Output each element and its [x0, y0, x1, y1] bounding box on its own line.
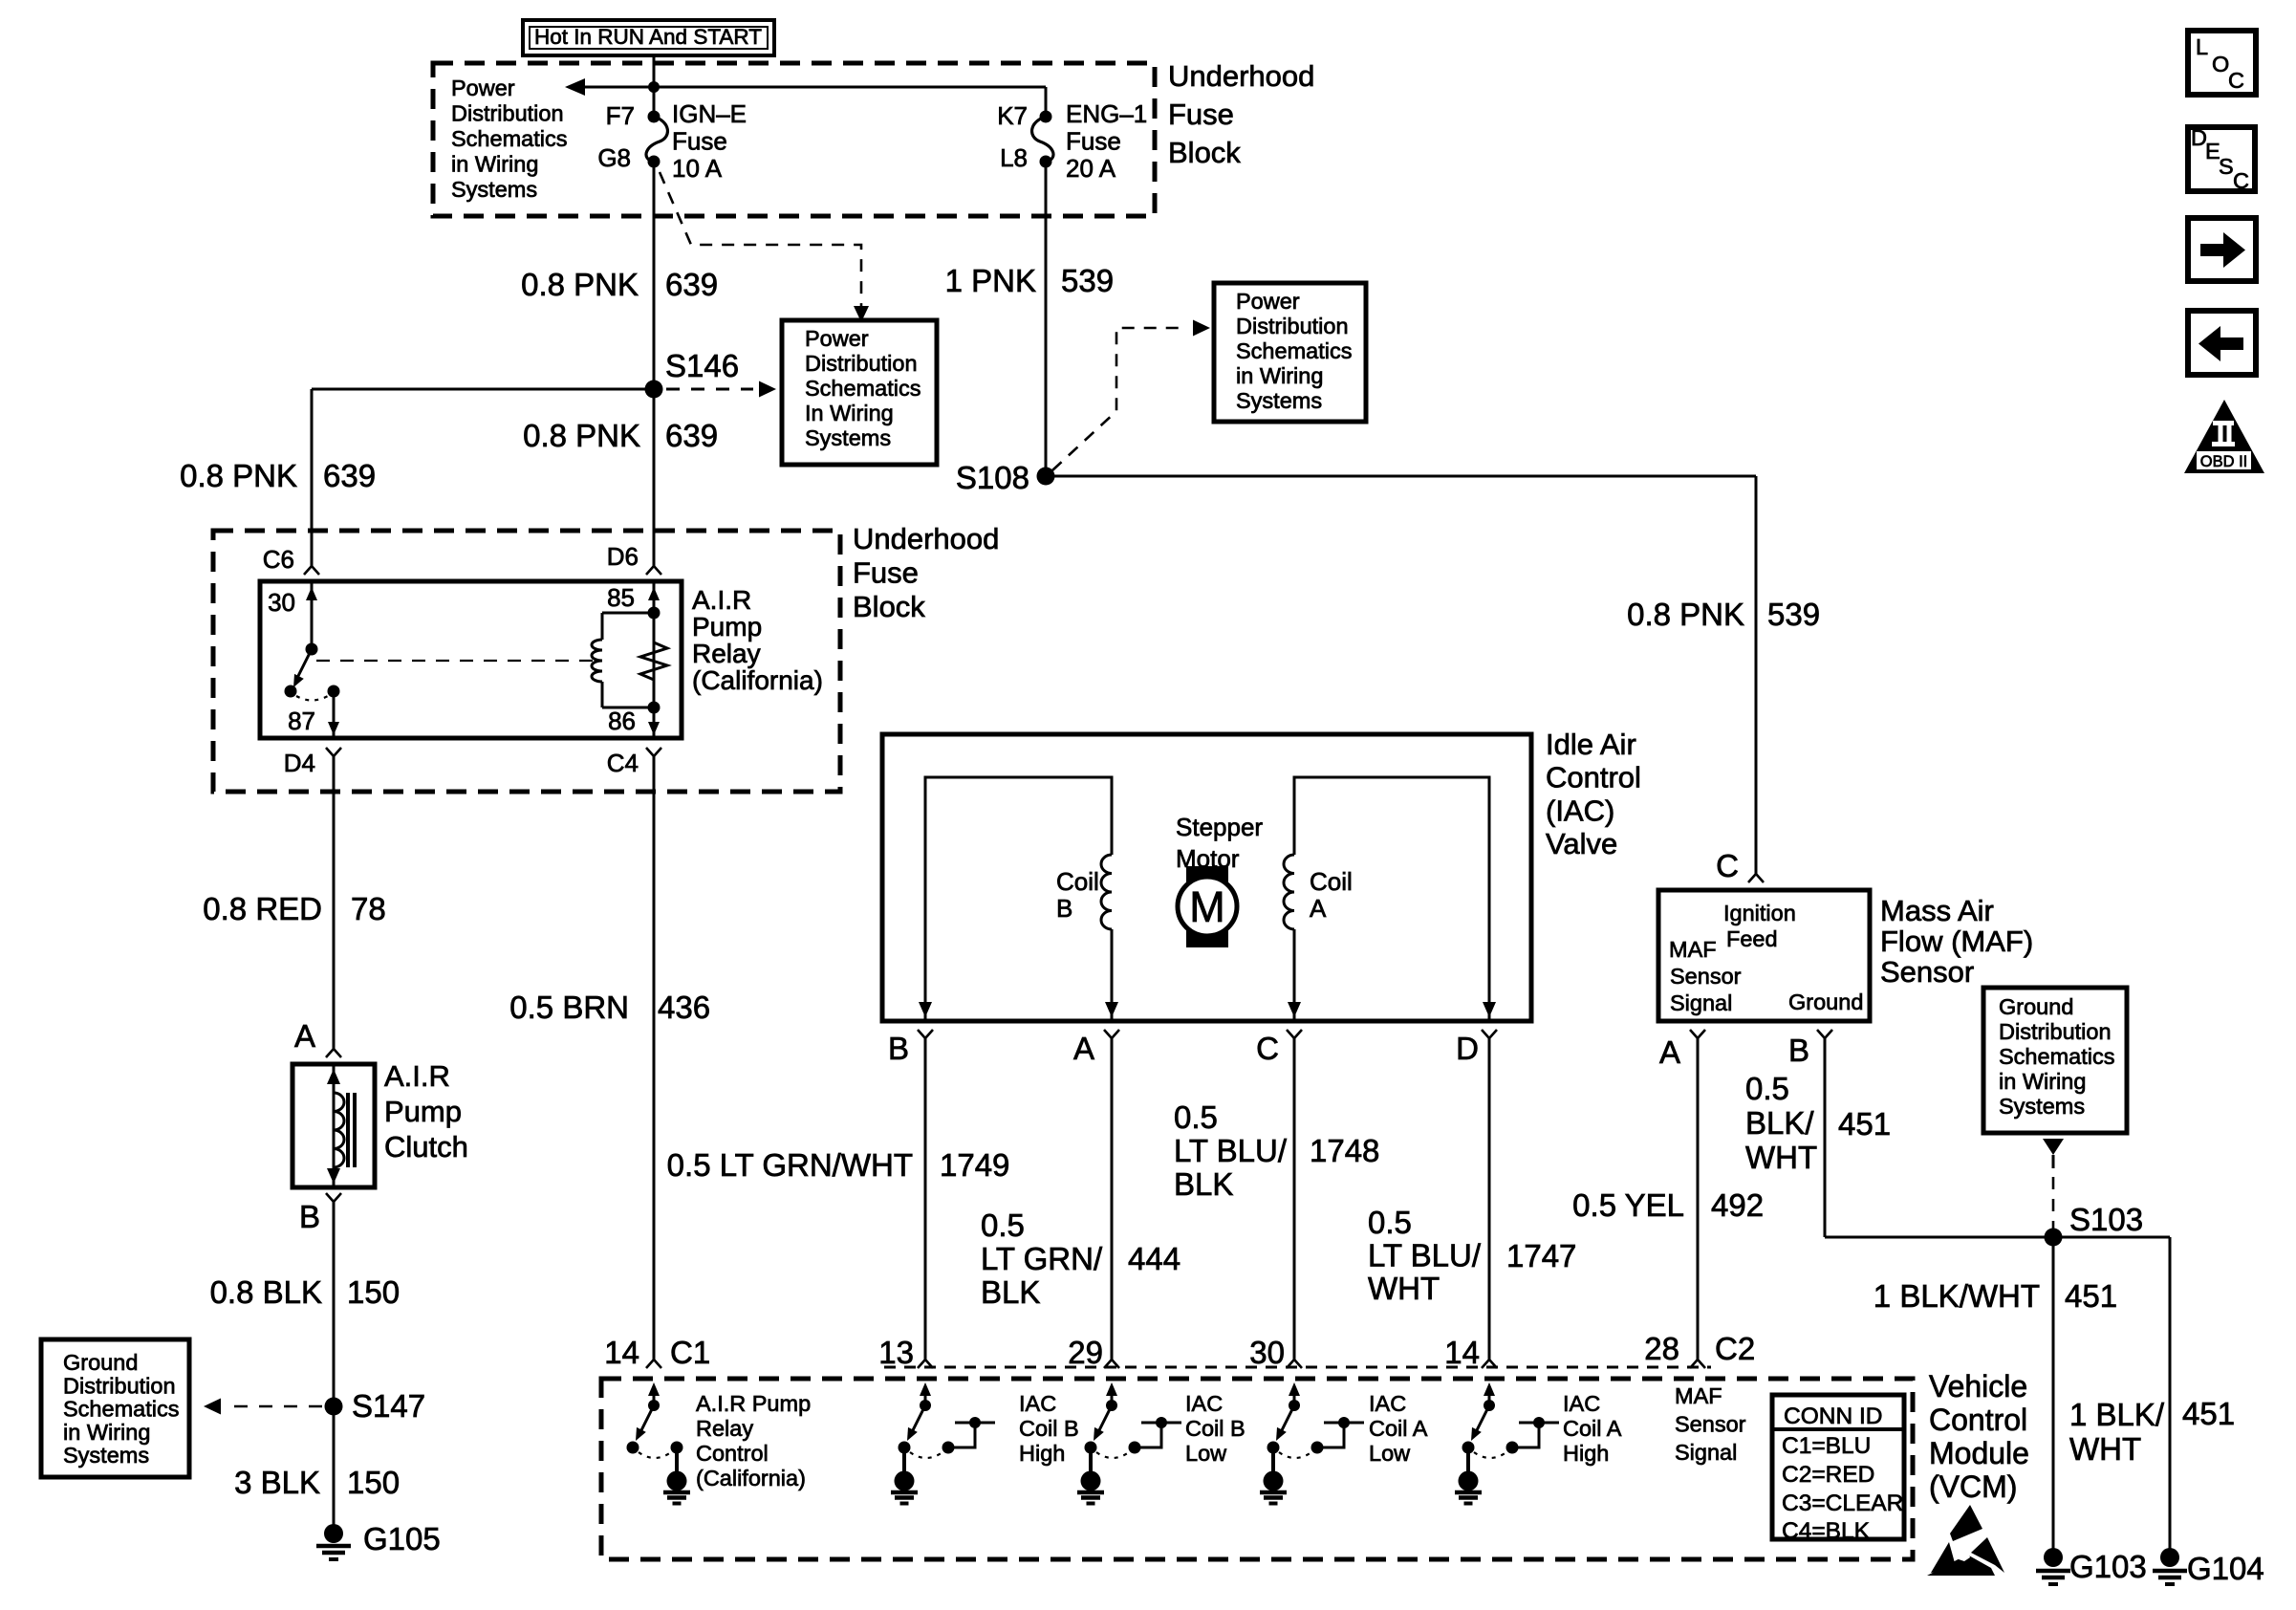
svg-text:Flow (MAF): Flow (MAF) [1880, 925, 2033, 958]
label 0.5 LT BLU/BLK 1748 [1174, 1099, 1379, 1202]
wire 1 PNK 539 from fuse L8 to splice S108 [1045, 162, 1048, 476]
wire dashed reference from Ground Distribution box to S103 [2043, 1139, 2064, 1229]
svg-text:0.5 LT GRN/WHT: 0.5 LT GRN/WHT [667, 1147, 913, 1183]
svg-text:Distribution: Distribution [63, 1373, 176, 1398]
node Underhood Fuse Block label (top) [1168, 59, 1314, 169]
node A.I.R Pump Clutch label [384, 1059, 468, 1164]
svg-text:G8: G8 [597, 143, 631, 172]
wire 0.5 BLK/WHT 451 from MAF B to S103 [1825, 1038, 2053, 1237]
node IAC Coil B Low label [1185, 1391, 1245, 1466]
svg-text:LT BLU/: LT BLU/ [1174, 1133, 1288, 1168]
svg-text:20 A: 20 A [1066, 154, 1116, 183]
svg-text:Coil A: Coil A [1369, 1416, 1428, 1441]
svg-text:Systems: Systems [1236, 388, 1322, 413]
svg-text:LT GRN/: LT GRN/ [981, 1241, 1103, 1276]
svg-text:Vehicle: Vehicle [1929, 1369, 2027, 1403]
svg-text:Distribution: Distribution [1236, 314, 1349, 338]
svg-text:(IAC): (IAC) [1546, 794, 1614, 827]
svg-text:BLK: BLK [1174, 1166, 1233, 1202]
node Ground Distribution Schematics in Wiring Systems box (right) [1983, 988, 2127, 1133]
svg-text:C6: C6 [263, 545, 294, 574]
svg-text:IAC: IAC [1563, 1391, 1600, 1416]
wire IAC pin C to VCM [1293, 1038, 1296, 1360]
ground G103 [2036, 1548, 2147, 1584]
svg-text:Coil B: Coil B [1185, 1416, 1245, 1441]
pin C4 [607, 748, 661, 777]
svg-text:Systems: Systems [63, 1443, 149, 1468]
svg-text:Schematics: Schematics [805, 376, 921, 401]
svg-text:Systems: Systems [451, 177, 537, 202]
svg-text:C1=BLU: C1=BLU [1782, 1433, 1871, 1459]
svg-text:3 BLK: 3 BLK [234, 1465, 320, 1500]
label 1 PNK 539 [945, 263, 1114, 298]
svg-text:Coil: Coil [1310, 867, 1353, 896]
pin B (clutch) [299, 1193, 341, 1234]
svg-text:IAC: IAC [1369, 1391, 1406, 1416]
svg-text:86: 86 [608, 707, 636, 735]
module Vehicle Control Module (VCM) boundary (dashed) [601, 1379, 1913, 1559]
label 0.5 LT GRN/BLK 444 [981, 1207, 1180, 1310]
svg-text:0.5: 0.5 [1745, 1071, 1789, 1106]
svg-text:WHT: WHT [1368, 1271, 1440, 1306]
node ENG-1 Fuse 20 A label [1066, 99, 1147, 183]
label 0.8 PNK 639 (left branch) [180, 458, 376, 493]
svg-text:BLK/: BLK/ [1745, 1105, 1814, 1141]
pin 14 C1 (VCM) [604, 1335, 710, 1370]
relay coil and resistor (pins 85-86) [592, 581, 667, 738]
svg-text:539: 539 [1061, 263, 1114, 298]
label 0.8 PNK 639 (below S146) [523, 418, 718, 453]
splice S108 [956, 460, 1055, 495]
pin D (IAC valve) [1456, 1030, 1497, 1066]
svg-text:0.5: 0.5 [1174, 1099, 1218, 1135]
svg-text:LT BLU/: LT BLU/ [1368, 1238, 1482, 1273]
svg-text:IAC: IAC [1185, 1391, 1223, 1416]
svg-text:Distribution: Distribution [1999, 1019, 2112, 1044]
relay A.I.R Pump Relay (California) box [260, 581, 682, 738]
svg-text:C: C [1256, 1031, 1279, 1066]
svg-text:Power: Power [451, 76, 515, 100]
svg-text:Systems: Systems [805, 425, 891, 450]
svg-text:Schematics: Schematics [1999, 1044, 2114, 1069]
svg-text:444: 444 [1128, 1241, 1180, 1276]
svg-text:Sensor: Sensor [1675, 1412, 1746, 1437]
svg-text:1 BLK/: 1 BLK/ [2069, 1397, 2165, 1432]
node MAF sensor internal labels [1669, 901, 1863, 1015]
svg-text:C: C [2233, 168, 2249, 193]
svg-text:Fuse: Fuse [672, 127, 727, 156]
svg-text:Stepper: Stepper [1176, 813, 1263, 841]
splice S147 [325, 1388, 426, 1424]
svg-text:B: B [1056, 894, 1072, 923]
svg-text:87: 87 [288, 707, 315, 735]
svg-text:Control: Control [1546, 761, 1641, 794]
node IGN-E Fuse 10 A label [672, 99, 747, 183]
svg-text:C2=RED: C2=RED [1782, 1462, 1874, 1488]
svg-text:28: 28 [1644, 1331, 1679, 1366]
svg-text:(California): (California) [692, 665, 823, 695]
fuse ENG-1 20A (K7/L8) [1032, 111, 1053, 168]
node back arrow icon [2188, 311, 2256, 375]
svg-text:539: 539 [1767, 597, 1820, 632]
wire dashed reference from S108 to Power Distribution box (right) [1052, 320, 1210, 471]
svg-text:0.8 PNK: 0.8 PNK [521, 267, 639, 302]
svg-text:639: 639 [323, 458, 376, 493]
node junction at arrow line [648, 81, 660, 93]
svg-text:639: 639 [665, 418, 718, 453]
svg-text:0.5 BRN: 0.5 BRN [509, 990, 629, 1025]
wire dashed reference from S147 to Ground Distribution box [204, 1399, 322, 1415]
pin C6 [263, 545, 319, 575]
svg-text:Sensor: Sensor [1880, 955, 1974, 989]
svg-text:Power: Power [805, 326, 869, 351]
svg-text:Coil A: Coil A [1563, 1416, 1622, 1441]
wire 1 BLK/WHT 451 branch from S103 to G104 [2053, 1237, 2170, 1550]
svg-text:Systems: Systems [1999, 1094, 2085, 1119]
svg-text:A: A [1310, 894, 1327, 923]
wire IAC pin A to VCM [1111, 1038, 1114, 1360]
ground G104 [2153, 1548, 2264, 1586]
svg-text:in Wiring: in Wiring [1999, 1069, 2086, 1094]
svg-text:150: 150 [347, 1465, 400, 1500]
svg-text:Pump: Pump [692, 612, 762, 642]
svg-text:ENG–1: ENG–1 [1066, 99, 1147, 128]
svg-text:(California): (California) [696, 1466, 806, 1490]
svg-text:13: 13 [878, 1335, 914, 1370]
wire dashed VCM connector face line [884, 1366, 1711, 1369]
node IAC Coil A High label [1563, 1391, 1622, 1466]
clutch coil symbol [327, 1064, 355, 1187]
wire 0.8 PNK 639 from fuse G8 to splice S146 and relay D6 [653, 162, 656, 566]
svg-text:B: B [299, 1199, 320, 1234]
svg-text:CONN ID: CONN ID [1784, 1403, 1882, 1429]
node Ground Distribution Schematics in Wiring Systems box (left) [41, 1339, 189, 1477]
label 0.5 YEL 492 [1572, 1187, 1764, 1223]
label 0.5 LT GRN/WHT 1749 [667, 1147, 1010, 1183]
svg-text:Feed: Feed [1726, 926, 1778, 951]
wire dashed relay actuating link [316, 660, 593, 662]
node Power Distribution Schematics In Wiring Systems box (middle) [782, 320, 937, 465]
svg-text:30: 30 [1249, 1335, 1285, 1370]
svg-text:451: 451 [2182, 1396, 2235, 1431]
wire 0.5 YEL 492 from MAF A to VCM pin 28 C2 [1697, 1038, 1700, 1360]
svg-text:O: O [2212, 52, 2229, 76]
pin 14 (VCM, coil A high) [1444, 1335, 1497, 1370]
pin C (MAF sensor) [1716, 848, 1764, 883]
relay switch (pins 30-87) [285, 581, 340, 738]
svg-text:A: A [294, 1018, 315, 1054]
svg-text:Schematics: Schematics [63, 1397, 179, 1422]
svg-text:K7: K7 [997, 101, 1028, 130]
wire 0.5 BRN 436 from relay C4 to VCM pin 14 C1 [653, 756, 656, 1360]
svg-text:Block: Block [1168, 136, 1241, 169]
svg-text:A.I.R: A.I.R [384, 1059, 450, 1093]
svg-text:(VCM): (VCM) [1929, 1469, 2017, 1504]
svg-text:Ground: Ground [1999, 994, 2073, 1019]
node DESC icon [2188, 125, 2255, 193]
pin D6 [607, 542, 661, 575]
wire feed from Hot In RUN And START to fuses with arrow to Power Distribution [565, 78, 1046, 96]
switch IAC coil A high driver (VCM) [1455, 1382, 1559, 1504]
wire 0.8 PNK 539 from S108 to MAF sensor pin C [1046, 476, 1756, 874]
svg-text:S103: S103 [2069, 1202, 2143, 1237]
svg-text:Ignition: Ignition [1723, 901, 1796, 925]
svg-text:Power: Power [1236, 289, 1300, 314]
svg-text:D6: D6 [607, 542, 639, 571]
svg-text:MAF: MAF [1669, 937, 1717, 962]
svg-text:WHT: WHT [2069, 1431, 2141, 1467]
wire 1 BLK/WHT 451 from S103 to G103 [2052, 1237, 2055, 1550]
svg-text:in Wiring: in Wiring [451, 152, 538, 177]
svg-text:G105: G105 [363, 1521, 441, 1556]
label 0.8 BLK 150 [210, 1274, 400, 1310]
pin A (IAC valve) [1073, 1030, 1119, 1066]
svg-text:Underhood: Underhood [1168, 59, 1314, 93]
switch IAC coil B low driver (VCM) [1077, 1382, 1181, 1504]
node Idle Air Control (IAC) Valve box [882, 734, 1531, 1021]
node Hot In RUN And START header box [523, 20, 774, 55]
svg-text:85: 85 [607, 583, 635, 612]
svg-text:436: 436 [658, 990, 710, 1025]
node A.I.R Pump Relay (California) label [692, 585, 823, 695]
pin B (MAF sensor) [1788, 1030, 1832, 1068]
inductor Coil A [1284, 855, 1353, 929]
svg-text:0.8 PNK: 0.8 PNK [1627, 597, 1744, 632]
svg-text:0.8 RED: 0.8 RED [203, 891, 322, 926]
svg-text:30: 30 [268, 588, 295, 617]
node Power Distribution Schematics in Wiring Systems box (right) [1214, 283, 1366, 422]
pin 29 (VCM) [1068, 1335, 1119, 1370]
svg-text:IAC: IAC [1019, 1391, 1056, 1416]
svg-text:Motor: Motor [1176, 844, 1240, 873]
underhood fuse block 2 boundary (dashed) [213, 531, 840, 792]
svg-text:Fuse: Fuse [853, 556, 919, 590]
svg-text:Schematics: Schematics [451, 126, 567, 151]
svg-text:Valve: Valve [1546, 827, 1617, 860]
node IAC Coil A Low label [1369, 1391, 1428, 1466]
svg-text:C2: C2 [1715, 1331, 1755, 1366]
svg-text:Coil: Coil [1056, 867, 1099, 896]
splice S146 [645, 348, 740, 399]
switch IAC coil A low driver (VCM) [1260, 1382, 1364, 1504]
svg-text:0.5: 0.5 [1368, 1205, 1412, 1240]
svg-text:F7: F7 [606, 101, 635, 130]
label 1 BLK/ WHT 451 (G104 branch) [2069, 1396, 2235, 1467]
pin 30 (VCM) [1249, 1335, 1302, 1370]
svg-text:D: D [1456, 1031, 1479, 1066]
pin A (clutch) [294, 1018, 341, 1057]
svg-text:C4=BLK: C4=BLK [1782, 1518, 1871, 1544]
pin 13 (VCM) [878, 1335, 933, 1370]
svg-text:S147: S147 [352, 1388, 425, 1424]
svg-text:Sensor: Sensor [1670, 964, 1742, 989]
wire 0.8 BLK 150 from clutch B to S147 [333, 1202, 336, 1406]
svg-text:1 PNK: 1 PNK [945, 263, 1036, 298]
svg-text:L: L [2196, 34, 2208, 59]
wire IAC pin D to VCM [1488, 1038, 1491, 1360]
svg-text:Low: Low [1369, 1441, 1411, 1466]
node OBD II symbol [2184, 400, 2264, 473]
ground G105 [316, 1521, 441, 1559]
pin D4 [284, 748, 341, 777]
svg-text:C4: C4 [607, 749, 639, 777]
wire IAC coil A loop [1288, 777, 1496, 1021]
label 0.8 PNK 639 (above S146) [521, 267, 718, 302]
svg-text:Fuse: Fuse [1168, 98, 1234, 131]
node A.I.R Pump Relay Control (California) label [696, 1391, 811, 1490]
node Mass Air Flow (MAF) Sensor box [1658, 890, 1870, 1021]
svg-text:1749: 1749 [940, 1147, 1009, 1183]
svg-text:BLK: BLK [981, 1274, 1040, 1310]
svg-text:Underhood: Underhood [853, 522, 999, 555]
svg-text:Control: Control [696, 1441, 769, 1466]
svg-text:High: High [1563, 1441, 1609, 1466]
svg-text:Relay: Relay [692, 639, 761, 668]
svg-text:D4: D4 [284, 749, 315, 777]
svg-text:High: High [1019, 1441, 1065, 1466]
svg-text:Hot In RUN And START: Hot In RUN And START [534, 25, 762, 49]
node Stepper Motor label [1176, 813, 1263, 873]
svg-text:451: 451 [2065, 1278, 2117, 1314]
wire IAC pin B to VCM [924, 1038, 927, 1360]
svg-text:A: A [1073, 1031, 1094, 1066]
svg-text:1747: 1747 [1506, 1238, 1576, 1273]
svg-text:0.8 PNK: 0.8 PNK [180, 458, 297, 493]
svg-text:S146: S146 [665, 348, 739, 383]
svg-text:150: 150 [347, 1274, 400, 1310]
svg-text:A.I.R: A.I.R [692, 585, 751, 615]
switch A.I.R pump relay control driver (VCM) [627, 1382, 691, 1504]
svg-text:OBD II: OBD II [2200, 453, 2248, 470]
label 0.5 BLK/WHT 451 [1745, 1071, 1891, 1175]
svg-text:In Wiring: In Wiring [805, 401, 894, 425]
node Idle Air Control (IAC) Valve label [1546, 728, 1641, 860]
label 0.5 BRN 436 [509, 990, 710, 1025]
svg-text:S108: S108 [956, 460, 1029, 495]
node Power Distribution Schematics in Wiring Systems (top left text) [451, 76, 567, 202]
wire 0.8 RED 78 from relay D4 to A.I.R pump clutch [333, 756, 336, 1049]
svg-text:MAF: MAF [1675, 1383, 1722, 1408]
svg-text:14: 14 [1444, 1335, 1480, 1370]
pin C (IAC valve) [1256, 1030, 1302, 1066]
label 1 BLK/WHT 451 [1874, 1278, 2117, 1314]
node Mass Air Flow (MAF) Sensor label [1880, 894, 2033, 989]
svg-text:in Wiring: in Wiring [1236, 363, 1323, 388]
node ESD sensitive device symbol [1927, 1505, 2004, 1576]
svg-text:Relay: Relay [696, 1416, 753, 1441]
svg-text:Low: Low [1185, 1441, 1227, 1466]
node MAF Sensor Signal label (VCM) [1675, 1383, 1746, 1465]
svg-text:492: 492 [1711, 1187, 1764, 1223]
label 0.8 PNK 539 [1627, 597, 1820, 632]
svg-text:Fuse: Fuse [1066, 127, 1121, 156]
svg-text:Control: Control [1929, 1403, 2027, 1437]
svg-text:0.8 BLK: 0.8 BLK [210, 1274, 322, 1310]
node Underhood Fuse Block label (relay block) [853, 522, 999, 623]
node Vehicle Control Module (VCM) label [1929, 1369, 2029, 1504]
svg-text:G104: G104 [2187, 1551, 2264, 1586]
svg-text:1 BLK/WHT: 1 BLK/WHT [1874, 1278, 2040, 1314]
svg-text:Signal: Signal [1670, 990, 1732, 1015]
label 0.8 RED 78 [203, 891, 385, 926]
svg-text:Pump: Pump [384, 1095, 462, 1128]
wire corner down to fuse K7 [1045, 87, 1048, 117]
pin B (IAC valve) [888, 1030, 933, 1066]
node forward arrow icon [2188, 218, 2256, 281]
node IAC Coil B High label [1019, 1391, 1079, 1466]
label 3 BLK 150 [234, 1465, 400, 1500]
svg-text:0.5 YEL: 0.5 YEL [1572, 1187, 1684, 1223]
svg-text:in Wiring: in Wiring [63, 1420, 150, 1445]
svg-text:78: 78 [351, 891, 386, 926]
svg-text:1748: 1748 [1310, 1133, 1379, 1168]
svg-text:0.8 PNK: 0.8 PNK [523, 418, 640, 453]
svg-text:0.5: 0.5 [981, 1207, 1025, 1243]
svg-text:29: 29 [1068, 1335, 1103, 1370]
svg-text:Module: Module [1929, 1436, 2029, 1470]
svg-text:C1: C1 [670, 1335, 710, 1370]
clutch A.I.R Pump Clutch box [292, 1064, 375, 1187]
svg-text:14: 14 [604, 1335, 639, 1370]
svg-text:S: S [2219, 154, 2234, 179]
svg-text:G103: G103 [2069, 1549, 2147, 1584]
svg-text:Distribution: Distribution [451, 101, 564, 126]
fuse IGN-E 10A (F7/G8) [646, 111, 667, 168]
splice S103 [2045, 1202, 2144, 1247]
label 0.5 LT BLU/WHT 1747 [1368, 1205, 1576, 1306]
node CONN ID table [1772, 1395, 1904, 1544]
pin 28 C2 (VCM) [1644, 1331, 1755, 1368]
node LOC icon [2188, 31, 2256, 95]
wire IAC coil B loop [919, 777, 1118, 1021]
svg-text:Signal: Signal [1675, 1440, 1737, 1465]
svg-text:C: C [2228, 68, 2244, 93]
pin A (MAF sensor) [1659, 1030, 1705, 1070]
wire dashed reference from fuse IGN-E to Power Distribution Schematics box [660, 172, 869, 322]
wire 3 BLK 150 from S147 to G105 [333, 1406, 336, 1527]
svg-text:Idle Air: Idle Air [1546, 728, 1636, 761]
svg-text:WHT: WHT [1745, 1140, 1817, 1175]
switch IAC coil B high driver (VCM) [891, 1382, 995, 1504]
svg-text:451: 451 [1838, 1106, 1891, 1142]
svg-text:B: B [1788, 1033, 1809, 1068]
svg-text:Mass Air: Mass Air [1880, 894, 1994, 927]
svg-text:Ground: Ground [1788, 990, 1863, 1014]
svg-text:C: C [1716, 848, 1739, 883]
svg-text:C3=CLEAR: C3=CLEAR [1782, 1490, 1903, 1516]
svg-text:M: M [1189, 882, 1225, 931]
svg-text:A: A [1659, 1034, 1680, 1070]
underhood fuse block 1 boundary (dashed) [433, 63, 1155, 216]
svg-text:A.I.R Pump: A.I.R Pump [696, 1391, 811, 1416]
svg-text:Distribution: Distribution [805, 351, 918, 376]
motor M stepper motor symbol [1178, 866, 1237, 947]
inductor Coil B [1056, 855, 1112, 929]
svg-text:10 A: 10 A [672, 154, 723, 183]
wire dashed reference from S146 to Power Distribution box [666, 381, 776, 398]
svg-text:Coil B: Coil B [1019, 1416, 1079, 1441]
svg-text:B: B [888, 1031, 909, 1066]
svg-text:Block: Block [853, 590, 925, 623]
wire 0.8 PNK 639 branch to relay C6 [312, 389, 654, 566]
svg-text:IGN–E: IGN–E [672, 99, 747, 128]
svg-text:Schematics: Schematics [1236, 338, 1352, 363]
svg-text:Clutch: Clutch [384, 1130, 468, 1164]
svg-text:L8: L8 [1000, 143, 1028, 172]
svg-text:Ground: Ground [63, 1350, 138, 1375]
svg-text:639: 639 [665, 267, 718, 302]
wire from header box down to fuse F7 [653, 55, 656, 117]
